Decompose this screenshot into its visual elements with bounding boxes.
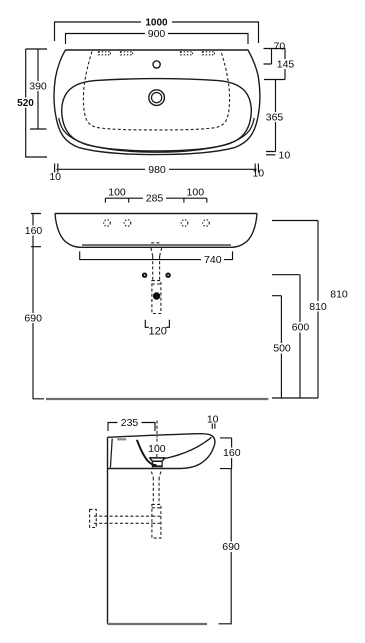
svg-text:120: 120 (149, 326, 167, 338)
svg-text:160: 160 (223, 447, 241, 459)
faucet hole section (gray band) (117, 438, 126, 440)
faucet dashed hole 2 (124, 220, 131, 227)
dashed tailpiece (side) (153, 478, 159, 505)
dim 690 right (219, 469, 243, 624)
dim 10 right (266, 149, 290, 161)
svg-text:70: 70 (274, 40, 286, 52)
dim 500 (271, 296, 293, 398)
dotted fixing slot 1 (99, 52, 111, 55)
dashed waste pipe horizontal (94, 516, 161, 523)
dim 145 (264, 49, 296, 80)
dashed trap body (side) (152, 505, 161, 539)
svg-text:980: 980 (148, 164, 166, 176)
svg-text:1000: 1000 (145, 18, 168, 29)
svg-text:600: 600 (292, 322, 310, 334)
dim 70 (264, 40, 286, 64)
dashed drain funnel (151, 248, 162, 256)
dim 365 (264, 80, 286, 152)
dotted fixing slot 4 (203, 52, 215, 55)
drain outer circle (149, 90, 165, 106)
svg-text:810: 810 (330, 288, 348, 300)
side profile: bowl front rise (165, 437, 212, 458)
basin front inner bottom line (82, 244, 231, 246)
svg-text:145: 145 (277, 59, 295, 71)
dim line 100/285/100 (105, 193, 206, 205)
side profile: rim top (108, 434, 215, 444)
dashed funnel (side) (151, 472, 161, 478)
basin inner rim line (double bottom edge) (59, 118, 254, 152)
side profile: inner wall line (110, 439, 112, 468)
dashed tailpiece (153, 256, 160, 281)
dotted fixing slot 3 (181, 52, 193, 55)
svg-text:160: 160 (25, 225, 43, 237)
dashed deck line (top view) (83, 52, 229, 130)
dashed trap body (152, 281, 161, 314)
bowl outline (top view) (62, 79, 251, 151)
bolt circle left (142, 273, 147, 278)
side profile: wall edge (107, 437, 109, 624)
side profile: front underside (108, 444, 215, 469)
dim 390 (26, 49, 49, 129)
basin front outline (55, 214, 257, 248)
dim 810 (272, 221, 330, 399)
svg-text:365: 365 (266, 112, 284, 124)
faucet hole (153, 61, 160, 68)
dashed drain flange (in bowl) (151, 242, 161, 244)
svg-text:690: 690 (222, 541, 240, 553)
bolt circle right (165, 273, 170, 278)
dim 900 (66, 28, 249, 44)
svg-text:740: 740 (204, 254, 222, 266)
svg-text:235: 235 (121, 417, 139, 429)
dim 160 right (220, 438, 243, 469)
floor line (side view) (108, 623, 208, 625)
dim 235 (108, 417, 155, 431)
dim 600 (272, 275, 311, 398)
floor line (front view) (46, 398, 268, 400)
svg-text:520: 520 (17, 98, 34, 109)
dim 980 (55, 164, 259, 176)
svg-text:390: 390 (29, 81, 47, 93)
dotted fixing slot 2 (121, 52, 133, 55)
svg-text:10: 10 (49, 171, 61, 183)
dim 160 left (23, 214, 44, 247)
dim 740 (80, 251, 233, 266)
dim 520 (14, 49, 47, 157)
basin outer outline (top view) (54, 50, 260, 155)
svg-text:100: 100 (187, 186, 205, 198)
dashed wall flange (90, 509, 97, 527)
drain cup (side) (150, 458, 165, 468)
dim 1000 (55, 17, 259, 43)
svg-text:900: 900 (148, 28, 166, 40)
svg-text:810: 810 (309, 301, 327, 313)
svg-text:100: 100 (148, 443, 166, 455)
side profile: bowl rear descent (137, 440, 157, 465)
dim 10 top (side view) (207, 414, 219, 429)
svg-text:690: 690 (24, 313, 42, 325)
faucet dashed hole 1 (104, 220, 111, 227)
dim 120 (145, 320, 169, 338)
dim baseline connector (272, 397, 318, 399)
svg-text:500: 500 (273, 343, 291, 355)
dashed centerline (156, 421, 158, 458)
svg-text:100: 100 (108, 186, 126, 198)
svg-text:10: 10 (279, 149, 291, 161)
faucet dashed hole 3 (181, 220, 188, 227)
svg-text:10: 10 (252, 168, 264, 180)
dim 690 left (23, 247, 45, 399)
faucet dashed hole 4 (203, 220, 210, 227)
svg-text:285: 285 (146, 193, 164, 205)
trap black dot (153, 292, 160, 299)
drain inner circle (152, 93, 162, 103)
